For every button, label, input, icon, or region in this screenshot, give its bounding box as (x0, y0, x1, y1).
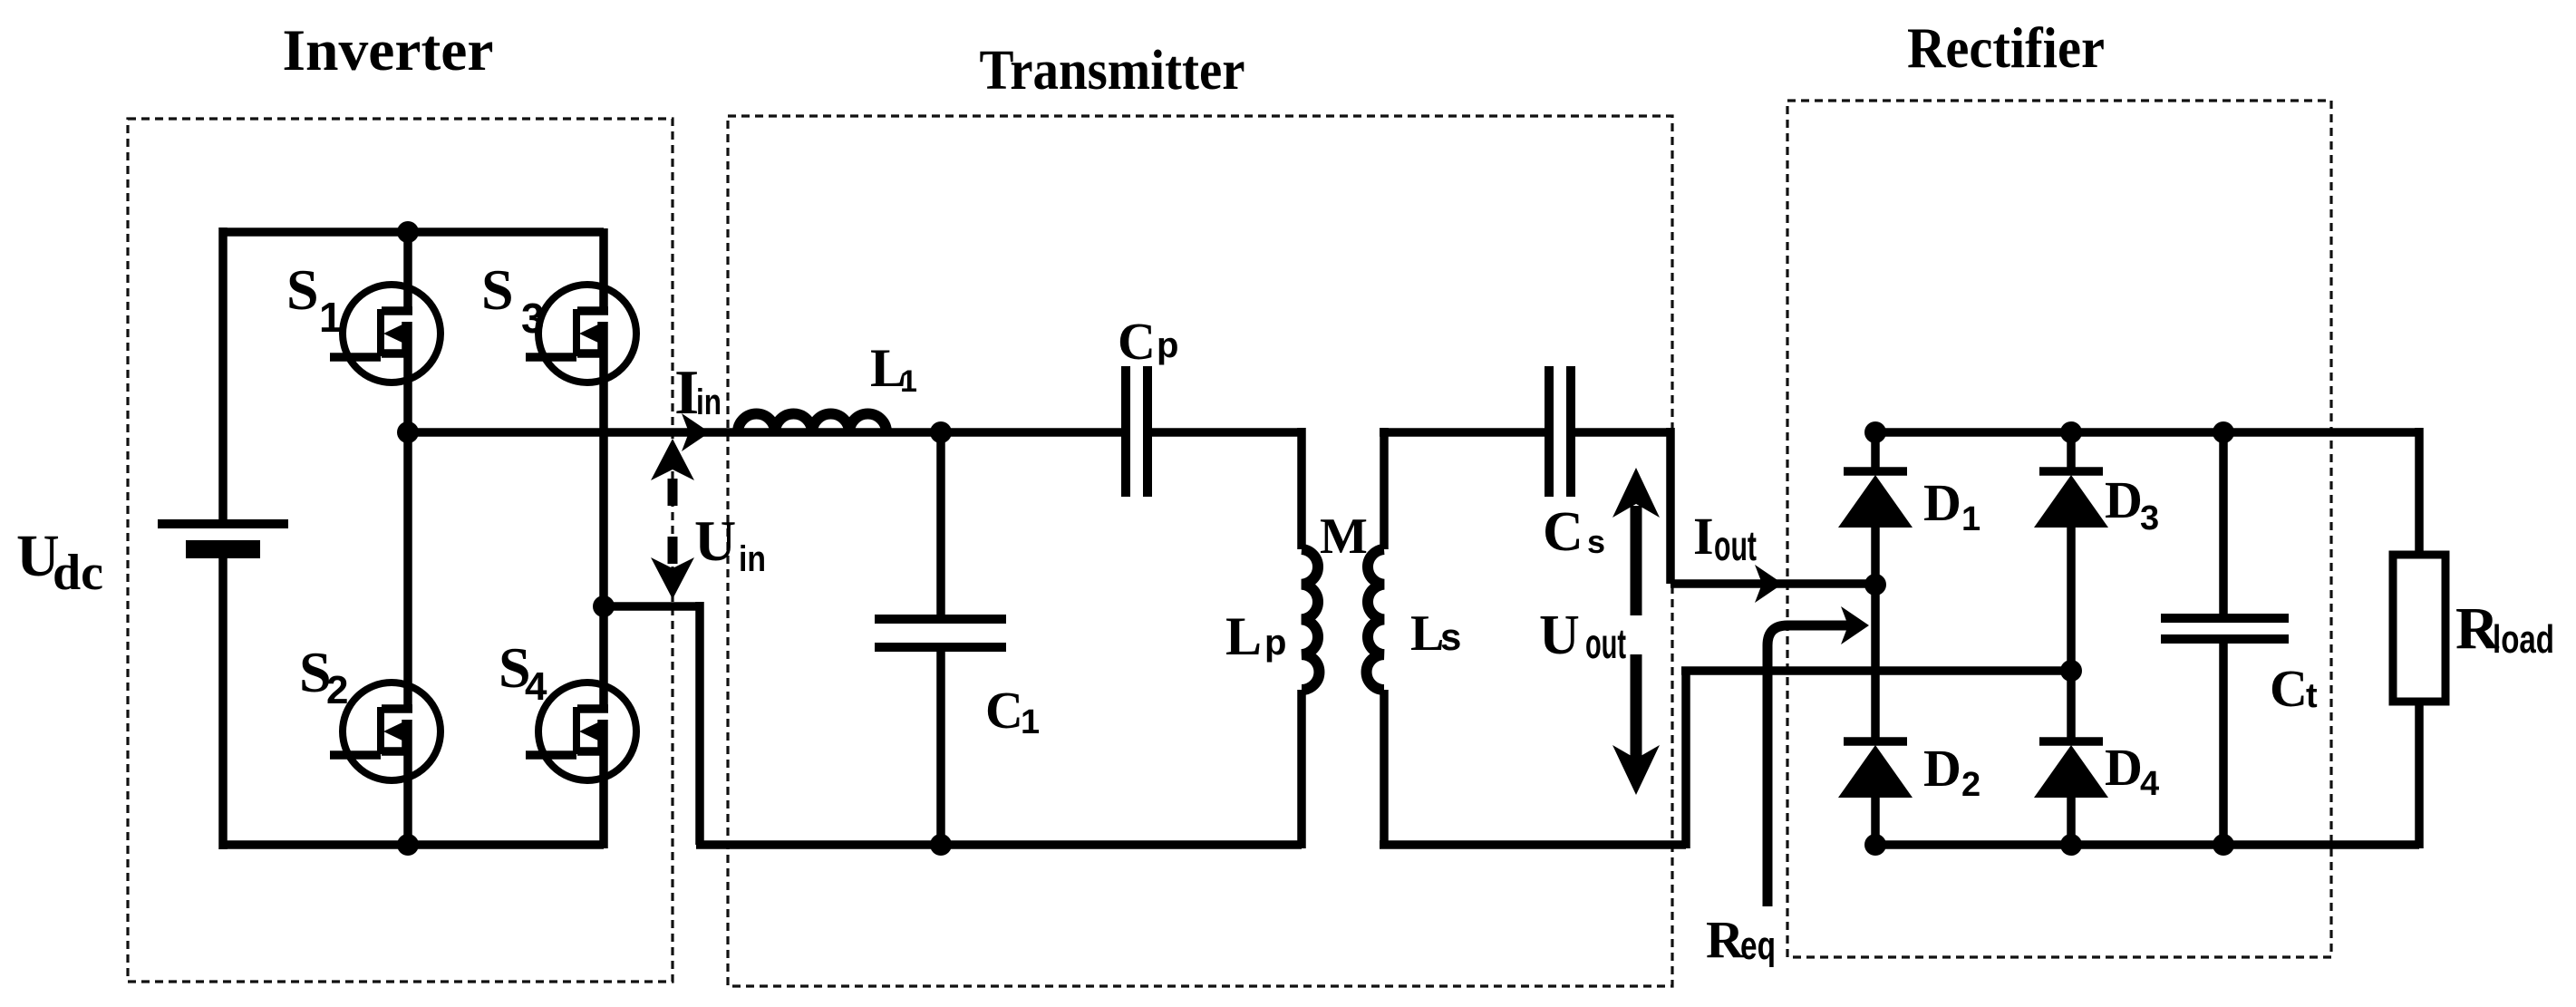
svg-text:t: t (2306, 677, 2318, 715)
svg-text:1: 1 (319, 294, 343, 341)
svg-text:U: U (694, 508, 736, 573)
svg-text:M: M (1320, 508, 1368, 565)
svg-text:2: 2 (1961, 766, 1980, 804)
svg-text:3: 3 (2140, 499, 2159, 537)
svg-text:3: 3 (521, 295, 545, 342)
svg-text:R: R (1706, 910, 1745, 969)
svg-text:L: L (1410, 605, 1444, 662)
svg-text:4: 4 (525, 664, 547, 709)
svg-text:p: p (1264, 623, 1286, 663)
svg-text:1: 1 (900, 364, 917, 399)
svg-text:D: D (1923, 473, 1961, 532)
svg-text:S: S (286, 257, 319, 322)
svg-text:D: D (1923, 739, 1961, 798)
svg-text:C: C (985, 681, 1023, 740)
svg-text:s: s (1587, 523, 1605, 560)
svg-text:U: U (1539, 605, 1580, 666)
svg-text:eq: eq (1740, 924, 1776, 968)
svg-text:s: s (1440, 615, 1461, 658)
svg-text:C: C (1118, 312, 1156, 371)
svg-text:C: C (1543, 501, 1583, 563)
svg-text:load: load (2493, 617, 2554, 662)
svg-text:Rectifier: Rectifier (1907, 16, 2105, 80)
svg-text:Transmitter: Transmitter (980, 40, 1245, 102)
svg-text:D: D (2105, 738, 2143, 797)
svg-text:I: I (1693, 507, 1714, 566)
svg-text:S: S (481, 257, 514, 322)
svg-text:out: out (1585, 620, 1626, 667)
svg-text:D: D (2105, 470, 2143, 529)
svg-text:p: p (1157, 325, 1178, 365)
svg-text:Inverter: Inverter (283, 18, 494, 83)
svg-text:1: 1 (1021, 703, 1040, 741)
svg-text:4: 4 (2140, 765, 2159, 803)
svg-text:2: 2 (326, 668, 348, 712)
svg-text:1: 1 (1961, 500, 1980, 538)
svg-text:dc: dc (53, 545, 103, 601)
svg-text:in: in (696, 382, 721, 422)
svg-text:in: in (739, 539, 766, 579)
svg-text:C: C (2270, 659, 2308, 718)
svg-text:out: out (1714, 522, 1757, 569)
svg-text:L: L (1225, 606, 1262, 666)
